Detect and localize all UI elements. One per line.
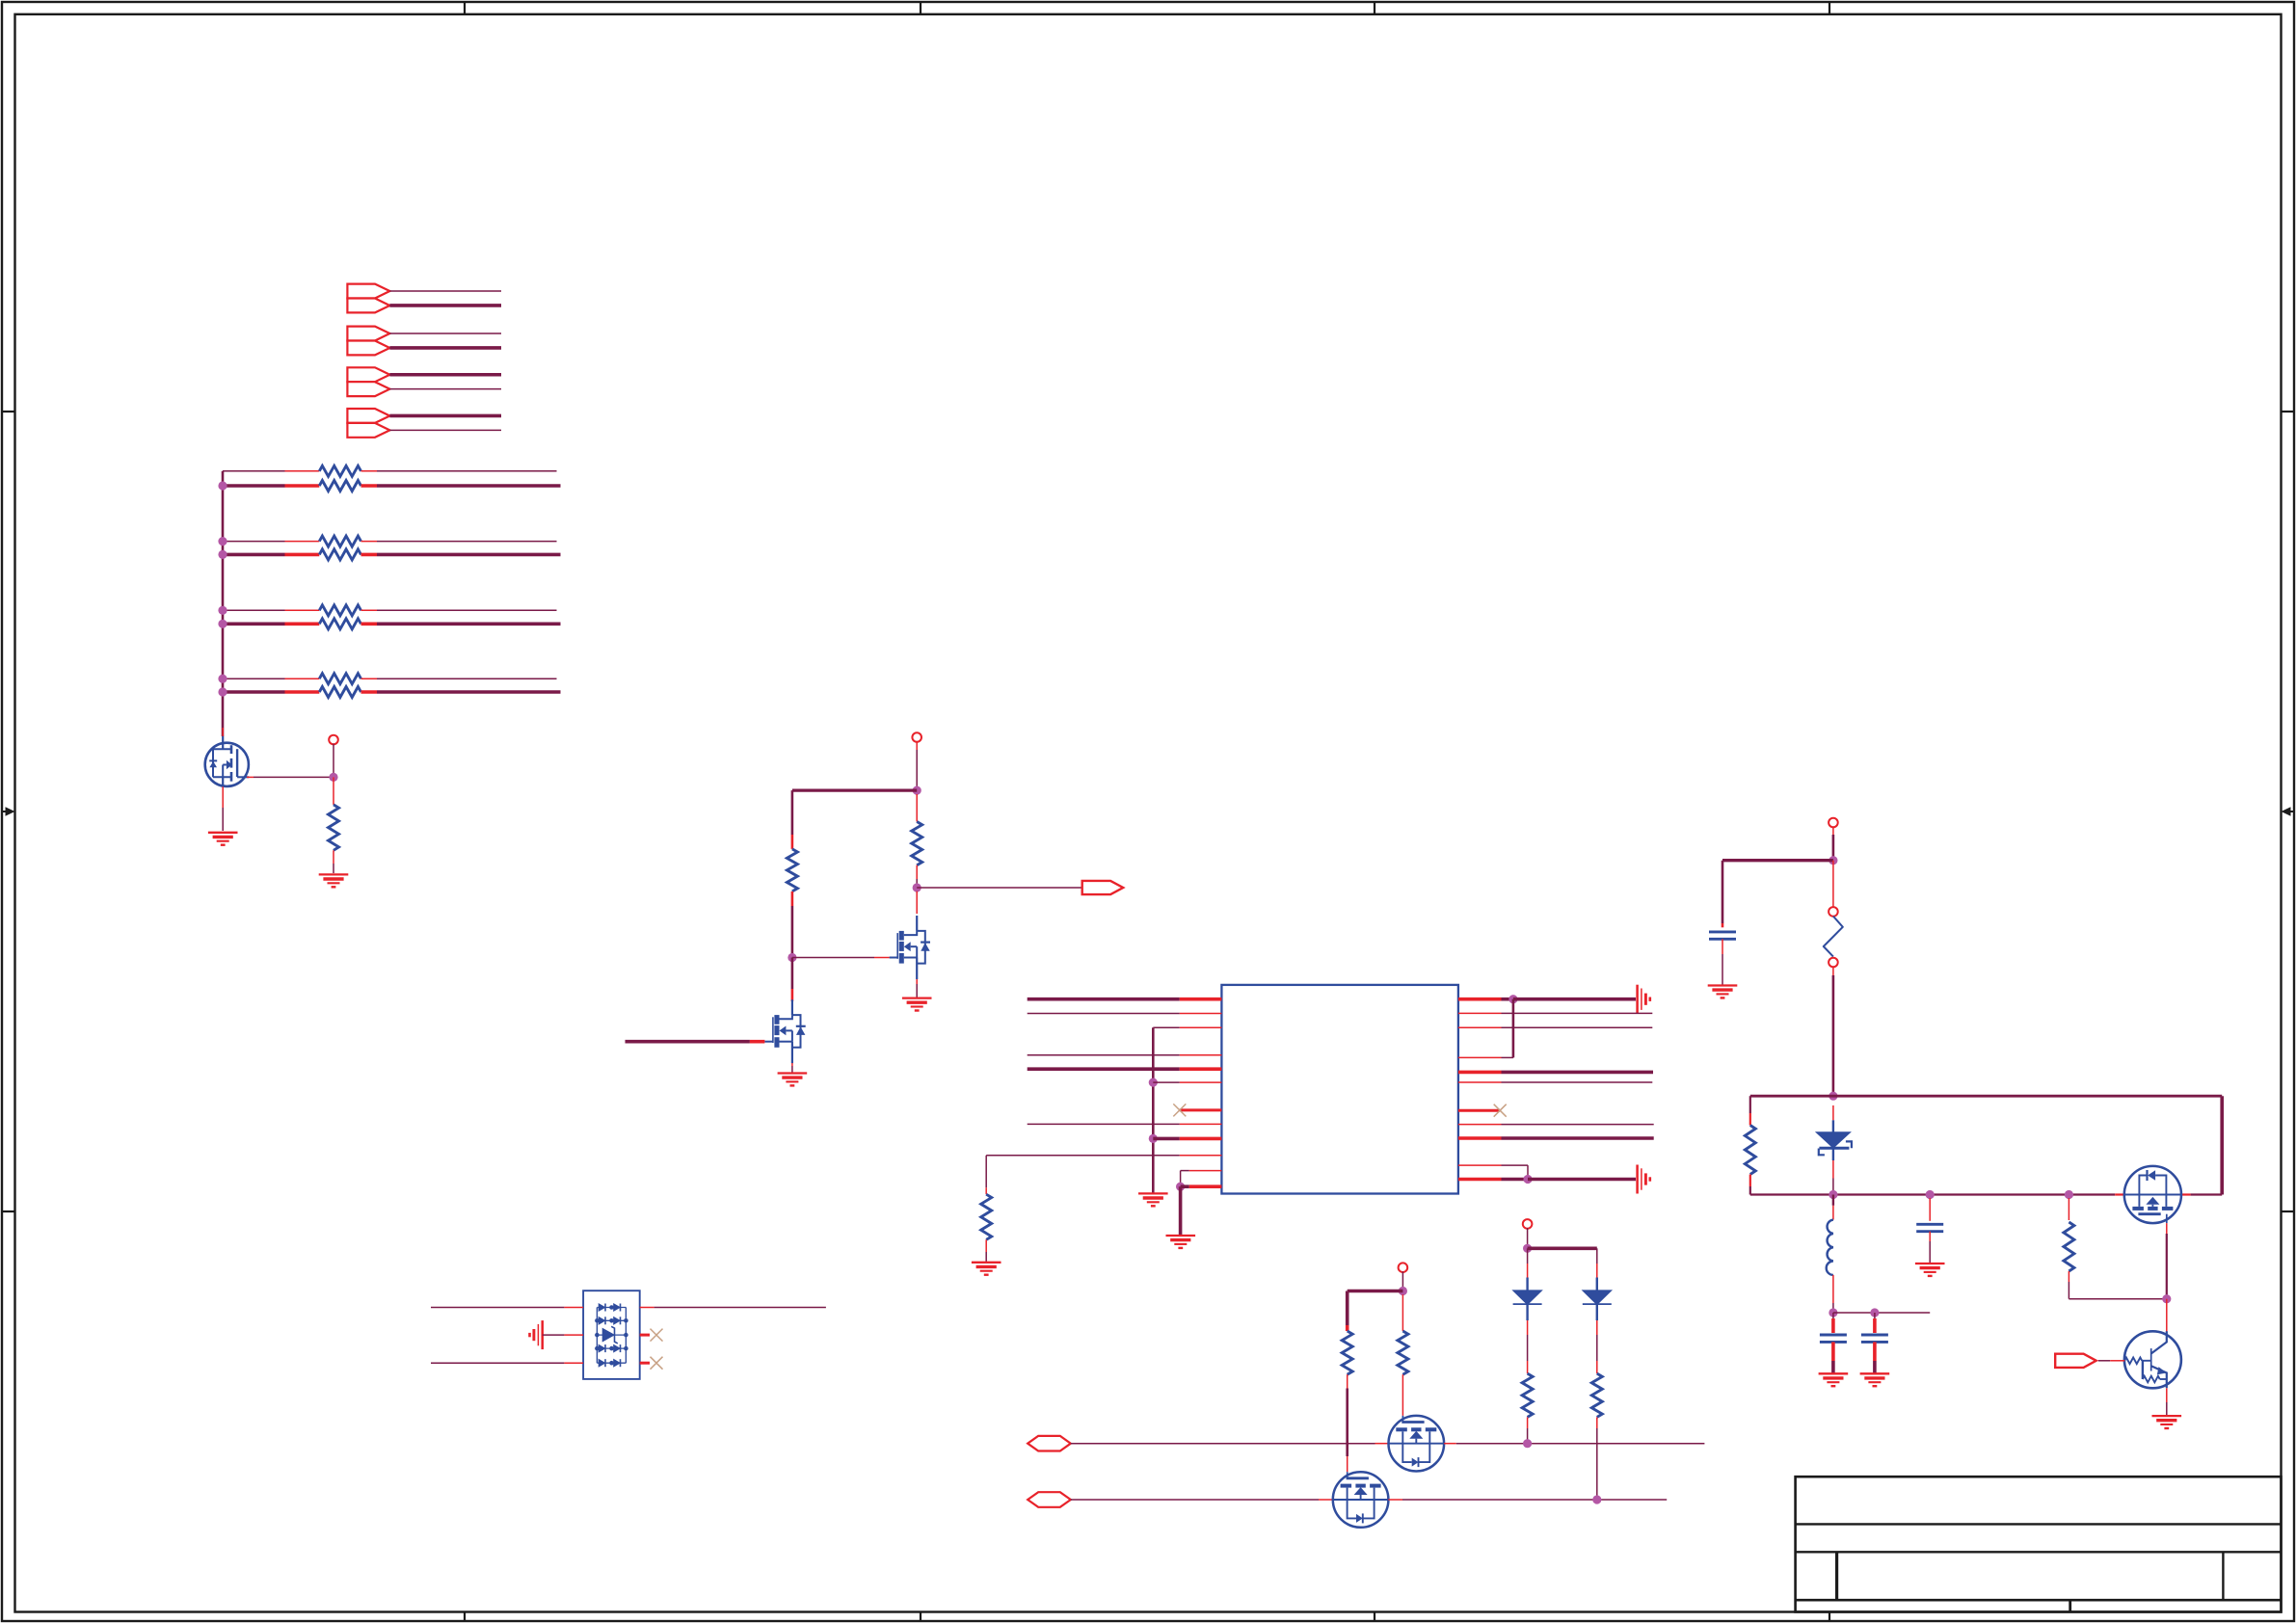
wire <box>1832 1275 1834 1303</box>
wire <box>361 609 378 611</box>
wire <box>1596 1361 1598 1373</box>
wire <box>1179 1186 1183 1235</box>
ground <box>208 833 238 845</box>
transistor Q5 <box>2124 1331 2181 1388</box>
transistor Q2 <box>764 999 805 1063</box>
wire <box>986 1155 1180 1157</box>
wire <box>750 1040 765 1044</box>
junction <box>329 773 337 782</box>
wire <box>1832 1105 1834 1120</box>
no-connect X <box>651 1329 663 1342</box>
wire <box>1153 1137 1180 1141</box>
junction <box>1829 1190 1837 1199</box>
wire <box>792 957 874 959</box>
wire <box>1502 998 1513 1001</box>
TVS diode D6 <box>1816 1120 1852 1155</box>
wire <box>1527 1248 1529 1264</box>
wire <box>361 553 378 557</box>
port OUT1 <box>1082 881 1124 894</box>
wire <box>377 553 561 557</box>
wire <box>389 346 501 350</box>
wire <box>1346 1325 1349 1331</box>
wire <box>1028 1054 1180 1056</box>
resistor R12 <box>1398 1331 1408 1374</box>
wire <box>1028 1013 1180 1015</box>
ESD internal dot <box>595 1346 600 1351</box>
wire <box>2166 1234 2168 1295</box>
ESD internal wire <box>597 1334 626 1336</box>
wire <box>916 865 918 879</box>
wire <box>389 373 501 377</box>
wire <box>1502 1136 1654 1140</box>
diode D1b <box>614 1304 621 1312</box>
wire <box>1596 1428 1598 1500</box>
wire <box>377 541 557 543</box>
wire <box>1346 1291 1349 1326</box>
wire <box>543 1334 565 1336</box>
junction <box>1523 1439 1532 1448</box>
wire <box>389 388 501 390</box>
connector arrow P2 pin a <box>347 327 389 341</box>
wire <box>1375 1443 1389 1445</box>
junction <box>1399 1287 1407 1295</box>
wire <box>2220 1096 2224 1194</box>
IC U1 pin stub <box>1180 1155 1222 1157</box>
connector arrow P2 pin b <box>347 341 389 356</box>
junction <box>1829 1308 1837 1317</box>
transistor Q3 <box>890 916 930 979</box>
wire <box>361 470 378 472</box>
wire <box>916 750 918 787</box>
wire <box>1153 1081 1180 1083</box>
wire <box>1528 1178 1636 1182</box>
wire <box>2068 1282 2069 1299</box>
border zone tick right <box>2282 411 2295 412</box>
IC U1 pin stub <box>1458 998 1502 1001</box>
wire <box>333 864 334 873</box>
connector arrow P4 pin b <box>347 423 389 438</box>
resistor R4a <box>319 674 360 684</box>
border center arrow left <box>2 807 15 815</box>
junction <box>218 481 227 490</box>
wire <box>1028 998 1180 1001</box>
junction <box>1523 1175 1532 1184</box>
wire <box>377 622 561 625</box>
diode D3a <box>599 1344 605 1352</box>
wire <box>1502 1071 1654 1075</box>
wire <box>1873 1318 1877 1333</box>
wire <box>285 470 320 472</box>
wire <box>1180 1171 1182 1187</box>
resistor R6 <box>787 849 797 891</box>
wire <box>1526 1278 1528 1290</box>
wire <box>1502 1124 1654 1126</box>
wire <box>916 741 918 750</box>
wire bus vertical <box>222 471 225 736</box>
wire <box>1596 1417 1598 1428</box>
ESD internal dot <box>609 1305 614 1310</box>
ground <box>1708 986 1738 998</box>
wire <box>916 879 918 888</box>
capacitor C1 <box>1709 932 1736 939</box>
wire <box>1832 827 1834 835</box>
IC U1 pin stub <box>1180 998 1222 1001</box>
wire <box>1028 1067 1180 1071</box>
wire <box>792 788 917 791</box>
IC U1 pin stub <box>1458 1081 1502 1083</box>
junction <box>1870 1308 1879 1317</box>
wire <box>1750 1193 2115 1195</box>
resistor R9v <box>1745 1126 1755 1175</box>
wire <box>361 484 378 488</box>
IC U1 pin stub <box>1189 1184 1222 1188</box>
wire <box>916 794 918 822</box>
ground <box>1138 1193 1168 1206</box>
fuse F1 <box>1824 917 1843 957</box>
wire <box>916 979 918 984</box>
ESD internal dot <box>609 1318 614 1323</box>
wire <box>377 678 557 679</box>
wire <box>1527 1335 1529 1361</box>
IC U1 pin stub <box>1180 1108 1222 1111</box>
ESD array U2 body <box>583 1290 640 1379</box>
wire <box>2166 1388 2168 1402</box>
wire <box>1513 998 1636 1001</box>
connector arrow P3 pin a <box>347 367 389 382</box>
junction <box>913 786 921 795</box>
IC U1 pin stub <box>1458 1012 1502 1014</box>
title block divider <box>1835 1552 1838 1600</box>
ESD internal rail <box>596 1308 598 1364</box>
border zone tick top <box>1829 2 1830 14</box>
wire <box>1444 1443 1456 1445</box>
wire <box>1596 1248 1598 1264</box>
connector arrow P1 pin b <box>347 299 389 313</box>
wire <box>2166 1223 2168 1234</box>
resistor R3b <box>319 619 360 629</box>
wire <box>377 484 561 488</box>
junction <box>218 606 227 615</box>
wire <box>1502 1056 1513 1058</box>
wire <box>1929 1198 1931 1221</box>
wire <box>1831 1361 1835 1373</box>
wire <box>1596 1320 1598 1335</box>
pin P7 <box>1829 818 1838 828</box>
wire <box>1722 923 1724 927</box>
title block row line <box>1796 1523 2282 1525</box>
ESD internal rail <box>625 1308 627 1364</box>
wire <box>389 304 501 307</box>
wire <box>1833 1312 1930 1314</box>
ESD internal dot <box>595 1318 600 1323</box>
wire <box>389 333 501 334</box>
wire <box>254 776 334 778</box>
wire <box>1749 1175 1751 1187</box>
diode D2a <box>599 1317 605 1324</box>
wire <box>377 470 557 472</box>
junction <box>218 687 227 696</box>
wire <box>791 835 794 849</box>
wire <box>333 850 334 864</box>
ground <box>319 874 349 887</box>
wire <box>1402 1499 1667 1501</box>
no-connect X <box>1494 1104 1507 1117</box>
border zone tick bottom <box>464 1612 466 1622</box>
ESD pin stub <box>640 1307 654 1309</box>
ESD pin stub <box>640 1334 650 1337</box>
wire <box>1402 1271 1403 1288</box>
connector arrow P3 pin b <box>347 382 389 396</box>
wire <box>1749 1096 1751 1113</box>
wire <box>1402 1374 1403 1416</box>
wire <box>2068 1271 2069 1282</box>
wire <box>1596 1264 1598 1278</box>
ESD internal dot <box>624 1318 628 1323</box>
IC U1 pin stub <box>1458 1164 1502 1166</box>
ESD internal wire <box>597 1307 626 1309</box>
wire <box>1750 1095 2222 1098</box>
wire <box>1749 1113 1751 1126</box>
wire <box>1527 1361 1529 1373</box>
capacitor C3 <box>1861 1335 1888 1342</box>
wire <box>1722 939 1723 954</box>
wire <box>1722 954 1723 985</box>
resistor R13 <box>1522 1373 1533 1417</box>
ESD internal dot <box>609 1346 614 1351</box>
wire <box>1502 1012 1653 1014</box>
wire <box>2068 1198 2069 1220</box>
ground <box>1166 1236 1196 1248</box>
resistor R10 <box>2064 1222 2074 1271</box>
wire <box>431 1362 564 1364</box>
IC U1 pin stub <box>1458 1071 1502 1075</box>
wire <box>1929 1232 1931 1241</box>
wire <box>791 1063 793 1066</box>
wire <box>377 609 557 611</box>
IC U1 pin stub <box>1458 1124 1502 1126</box>
wire <box>791 958 794 990</box>
ESD internal wire <box>597 1347 626 1349</box>
wire <box>1832 1160 1834 1179</box>
ground <box>1819 1373 1849 1386</box>
wire <box>1153 1026 1180 1028</box>
fuse F1 terminal <box>1829 907 1838 917</box>
zener diode D5 <box>602 1326 618 1344</box>
resistor R8 <box>981 1194 992 1239</box>
IC U1 pin stub <box>1458 1026 1502 1028</box>
IC U1 pin stub <box>1180 1137 1222 1141</box>
wire <box>1528 1247 1597 1251</box>
wire <box>1527 1264 1529 1278</box>
connector arrow P1 pin a <box>347 284 389 299</box>
wire <box>791 1066 793 1073</box>
wire <box>333 777 334 805</box>
resistor R2b <box>319 549 360 560</box>
junction <box>1149 1134 1158 1143</box>
wire <box>1929 1241 1931 1263</box>
wire <box>361 622 378 625</box>
wire <box>285 622 320 625</box>
wire <box>1832 967 1834 975</box>
border zone tick top <box>1374 2 1375 14</box>
junction <box>1149 1078 1158 1087</box>
junction <box>788 953 796 962</box>
wire <box>1181 1170 1189 1172</box>
wire <box>2098 1360 2110 1362</box>
wire <box>2069 1298 2166 1300</box>
IC U1 pin stub <box>1180 1067 1222 1071</box>
wire <box>1832 1148 1834 1160</box>
wire <box>285 609 320 611</box>
IC U1 pin stub <box>1189 1170 1222 1172</box>
wire <box>2166 1402 2168 1415</box>
wire <box>361 678 378 679</box>
wire <box>285 678 320 679</box>
junction <box>218 537 227 545</box>
diode D3b <box>614 1344 621 1352</box>
wire <box>1873 1342 1877 1361</box>
IC U1 pin stub <box>1180 1054 1222 1056</box>
junction <box>1523 1244 1532 1253</box>
wire <box>985 1239 987 1252</box>
wire <box>1181 1184 1189 1188</box>
wire <box>1388 1499 1402 1501</box>
wire <box>985 1187 987 1194</box>
IC U1 pin stub <box>1458 1136 1502 1140</box>
no-connect X <box>1173 1104 1186 1116</box>
transistor Q4 <box>2124 1166 2181 1223</box>
ground <box>1638 1165 1650 1194</box>
ground <box>902 998 932 1011</box>
port IO2 <box>1028 1492 1071 1507</box>
wire <box>247 776 254 778</box>
IC U1 body <box>1221 985 1458 1194</box>
junction <box>1829 856 1837 865</box>
wire <box>2166 1299 2168 1335</box>
capacitor C2 <box>1820 1335 1847 1342</box>
junction <box>1176 1183 1185 1191</box>
wire <box>1832 861 1834 908</box>
wire <box>791 891 794 906</box>
wire <box>223 690 285 694</box>
wire <box>985 1252 987 1262</box>
wire <box>1722 859 1833 862</box>
border zone tick left <box>2 1211 15 1212</box>
wire <box>874 957 890 959</box>
junction <box>913 883 921 891</box>
wire <box>1832 835 1835 857</box>
resistor R4b <box>319 687 360 698</box>
junction <box>1508 995 1517 1003</box>
wire <box>791 989 794 1001</box>
ground <box>1638 985 1650 1014</box>
resistor R1b <box>319 481 360 492</box>
resistor R14 <box>1591 1373 1602 1417</box>
IC U1 pin stub <box>1458 1109 1500 1112</box>
wire <box>1832 1206 1834 1220</box>
ground <box>1915 1264 1945 1276</box>
border zone tick right <box>2282 1211 2295 1212</box>
wire <box>791 790 794 835</box>
wire <box>285 484 320 488</box>
wire <box>222 786 224 808</box>
title block divider <box>2222 1552 2224 1600</box>
wire <box>1347 1374 1348 1388</box>
pin P6 <box>912 732 921 742</box>
IC U1 pin stub <box>1458 1178 1502 1182</box>
border zone tick top <box>464 2 466 14</box>
wire <box>2181 1193 2191 1195</box>
wire <box>2115 1193 2124 1195</box>
ground <box>2152 1416 2182 1428</box>
wire <box>222 808 224 831</box>
wire <box>1527 1165 1529 1179</box>
ESD pin stub <box>564 1362 583 1364</box>
wire <box>1028 1123 1180 1125</box>
wire <box>285 553 320 557</box>
wire <box>333 744 334 778</box>
wire <box>223 553 285 557</box>
diode D8 <box>1583 1290 1612 1305</box>
wire <box>389 429 501 431</box>
wire <box>1596 1305 1598 1320</box>
fuse F1 terminal <box>1829 958 1838 968</box>
wire <box>1319 1499 1333 1501</box>
wire <box>1402 1294 1403 1331</box>
junction <box>218 620 227 628</box>
title block frame <box>1796 1477 2282 1611</box>
wire <box>1831 1318 1835 1333</box>
ground <box>530 1320 543 1349</box>
wire <box>223 678 285 679</box>
resistor R11 <box>1342 1331 1352 1374</box>
wire <box>285 690 320 694</box>
wire <box>2191 1193 2223 1195</box>
wire <box>1832 975 1835 1093</box>
ground <box>778 1074 808 1086</box>
ESD pin stub <box>564 1307 583 1309</box>
border zone tick left <box>2 411 15 412</box>
wire <box>916 984 918 998</box>
inductor L1 <box>1827 1220 1833 1275</box>
diode D2b <box>614 1317 621 1324</box>
border zone tick bottom <box>1374 1612 1375 1622</box>
wire <box>1502 1081 1653 1083</box>
wire net vertical <box>1152 1027 1155 1193</box>
wire <box>223 484 285 488</box>
wire <box>1832 1303 1834 1309</box>
wire <box>377 690 561 694</box>
capacitor C4 <box>1916 1224 1943 1231</box>
wire <box>223 609 285 611</box>
wire <box>1527 1320 1529 1335</box>
ESD internal dot <box>624 1333 628 1338</box>
diode D4b <box>614 1359 621 1367</box>
wire <box>1502 1026 1653 1028</box>
ground <box>972 1263 1001 1275</box>
ground <box>1860 1373 1890 1386</box>
wire <box>1071 1443 1375 1445</box>
ESD internal dot <box>609 1361 614 1366</box>
border center arrow right <box>2282 807 2295 815</box>
IC U1 pin stub <box>1180 1081 1222 1083</box>
diode D4a <box>599 1359 605 1367</box>
wire <box>285 541 320 543</box>
wire <box>1527 1417 1529 1428</box>
ESD pin stub <box>640 1362 650 1365</box>
resistor R7 <box>912 822 922 865</box>
ESD internal wire <box>597 1362 626 1364</box>
